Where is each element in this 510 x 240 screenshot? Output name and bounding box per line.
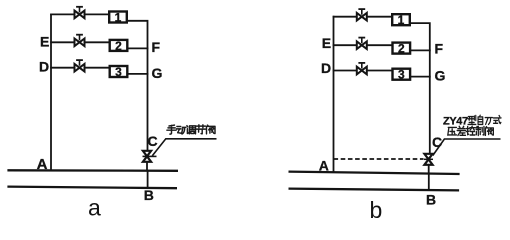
valve V5 (row 2): [357, 38, 367, 49]
svg-text:C: C: [432, 134, 442, 150]
svg-text:G: G: [152, 65, 163, 81]
char 阀: [207, 125, 216, 134]
svg-text:3: 3: [115, 65, 122, 79]
return main (lower horizontal pipe): [7, 187, 177, 189]
wire: riser between mains at B: [428, 174, 430, 191]
impulse line (dashed) from riser to control valve: [334, 158, 424, 160]
svg-text:F: F: [152, 39, 161, 55]
char 节: [196, 125, 205, 134]
svg-text:B: B: [144, 187, 154, 203]
wire: waist bar of control valve: [424, 158, 433, 160]
wire: row3 riser to valve3: [333, 70, 357, 72]
wire: row3 valve3 to box3: [85, 67, 110, 69]
wire: row1 box1 exit to right riser corner: [410, 23, 430, 153]
wire: valve C bottom stem to supply main: [146, 162, 148, 171]
svg-text:1: 1: [398, 13, 405, 27]
wire: row2 riser to valve2: [333, 44, 357, 46]
wire: row1 valve to box1: [367, 16, 392, 18]
leader tick at valve waist: [143, 155, 157, 157]
radiator box 1: [109, 10, 127, 24]
wire: row1 valve to box1: [85, 13, 109, 15]
radiator box 2: [393, 42, 411, 56]
svg-text:3: 3: [398, 68, 405, 82]
wire: riser between mains at B: [147, 171, 149, 188]
char 力: [485, 118, 492, 125]
svg-text:G: G: [435, 68, 446, 84]
svg-text:A: A: [319, 158, 329, 174]
svg-text:A: A: [37, 156, 48, 173]
char 制: [476, 126, 484, 135]
ZY47 self-operated differential pressure control valve at C (vertical): [424, 154, 432, 165]
svg-text:b: b: [370, 197, 383, 223]
wire: row2 valve2 to box2: [367, 44, 392, 46]
manual valve at C (vertical): [143, 151, 151, 162]
leader line to label: [433, 139, 501, 156]
svg-text:a: a: [88, 195, 101, 221]
char 手: [167, 125, 176, 134]
supply main (upper horizontal pipe): [7, 169, 178, 172]
svg-text:E: E: [40, 33, 49, 49]
label line1: ZY47型自力式: [443, 115, 501, 127]
char 调: [187, 126, 196, 134]
wire: top branch row1 left segment: [50, 13, 74, 15]
wire: row2 riser to valve2: [50, 41, 74, 43]
char 差: [457, 126, 466, 135]
wire: row2 box2 exit to right riser (F): [128, 47, 148, 49]
char 式: [493, 116, 501, 124]
svg-text:ZY47: ZY47: [443, 116, 468, 128]
wire: left riser: [333, 16, 335, 172]
char 型: [468, 115, 476, 124]
valve V1 (row 1): [75, 7, 85, 18]
return main (lower horizontal pipe): [289, 189, 460, 191]
wire: top branch row1 left segment: [333, 16, 357, 18]
svg-text:B: B: [426, 192, 436, 208]
svg-text:1: 1: [115, 10, 122, 24]
wire: valve C bottom stem to supply main: [428, 165, 430, 173]
radiator box 1: [392, 13, 410, 27]
svg-text:2: 2: [398, 42, 405, 56]
wire: row1 box1 exit to right riser corner: [128, 21, 148, 151]
valve V4 (row 1): [357, 9, 367, 20]
valve V3 (row 3): [75, 60, 85, 71]
svg-text:2: 2: [115, 39, 122, 53]
char 自: [478, 115, 483, 124]
char 压: [448, 127, 457, 135]
wire: row3 box3 exit to right riser (G): [129, 73, 149, 75]
svg-text:D: D: [39, 58, 49, 74]
wire: left riser: [50, 14, 52, 171]
valve V2 (row 2): [75, 35, 85, 46]
svg-text:F: F: [435, 40, 444, 56]
valve V6 (row 3): [357, 63, 367, 74]
svg-text:D: D: [321, 60, 331, 76]
char 控: [466, 126, 475, 135]
label: 手动调节阀 (hand-drawn glyph strokes): [167, 125, 215, 134]
label line2: 压差控制阀: [448, 126, 494, 135]
wire: row2 box2 exit to right riser (F): [411, 49, 431, 51]
supply main (upper horizontal pipe): [289, 172, 460, 174]
leader line to label: [152, 139, 216, 156]
svg-text:C: C: [148, 133, 158, 149]
wire: row2 valve2 to box2: [85, 41, 110, 43]
char 阀: [485, 127, 493, 136]
wire: row3 box3 exit to right riser (G): [411, 76, 431, 78]
radiator box 2: [110, 39, 128, 53]
svg-text:E: E: [322, 35, 331, 51]
radiator box 3: [393, 68, 411, 82]
wire: row3 riser to valve3: [50, 67, 74, 69]
char 动: [177, 127, 187, 134]
radiator box 3: [110, 65, 128, 79]
wire: row3 valve3 to box3: [367, 70, 392, 72]
